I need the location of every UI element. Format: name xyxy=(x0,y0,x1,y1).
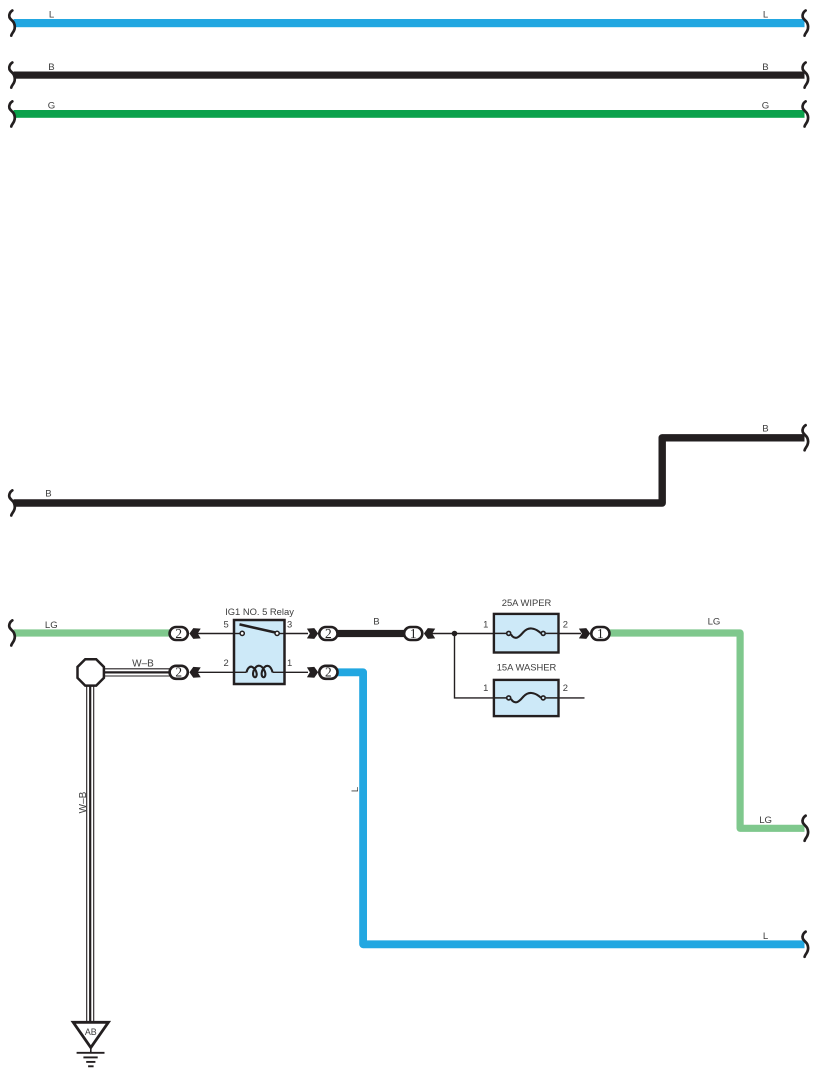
svg-text:L: L xyxy=(763,931,769,942)
svg-text:G: G xyxy=(48,101,55,112)
svg-text:L: L xyxy=(49,10,55,21)
wire B (relay to fuse, black) xyxy=(336,630,406,637)
relay switch contact xyxy=(234,633,241,635)
relay IG1 NO. 5 Relay xyxy=(223,606,294,684)
svg-text:1: 1 xyxy=(597,626,604,641)
wire junction down to 15A fuse xyxy=(455,634,496,698)
octagon splice node xyxy=(78,659,104,685)
wire connector to relay pin 2 xyxy=(196,671,234,673)
svg-text:25A WIPER: 25A WIPER xyxy=(502,597,552,608)
svg-text:1: 1 xyxy=(483,618,488,629)
wire LG (bottom-left light green) xyxy=(14,629,174,636)
wire continuation symbol right of middle B wire xyxy=(803,425,809,450)
svg-text:1: 1 xyxy=(410,626,417,641)
svg-text:B: B xyxy=(762,62,768,73)
wire connector to relay pin 5 xyxy=(196,633,234,635)
wire relay pin 1 to connector xyxy=(285,671,308,673)
fuse 25A WIPER xyxy=(483,597,568,653)
svg-text:G: G xyxy=(762,101,769,112)
wire continuation symbol left of B wire xyxy=(9,63,15,88)
svg-text:2: 2 xyxy=(325,626,332,641)
connector 2 (relay pin 1 side) xyxy=(307,665,338,680)
wire G (third, green) xyxy=(14,110,805,118)
wire continuation symbol right of G wire xyxy=(803,101,809,126)
svg-text:2: 2 xyxy=(223,657,228,668)
wire L (blue from relay, elbow down and right exit) xyxy=(336,672,805,944)
connector 1 (fuse feed) xyxy=(404,626,435,641)
svg-text:3: 3 xyxy=(287,618,292,629)
fuse element xyxy=(494,697,506,699)
svg-text:B: B xyxy=(45,489,51,500)
svg-text:B: B xyxy=(762,424,768,435)
wire connector to 25A fuse xyxy=(431,633,495,635)
ground point AB triangle xyxy=(73,1022,108,1047)
ground symbol xyxy=(77,1046,105,1066)
wire relay pin 3 to connector xyxy=(285,633,308,635)
svg-text:W–B: W–B xyxy=(78,791,89,813)
svg-text:W–B: W–B xyxy=(132,658,154,669)
svg-text:2: 2 xyxy=(563,682,568,693)
svg-text:2: 2 xyxy=(175,626,182,641)
wire B (second, black) xyxy=(14,72,805,79)
wire LG (fuse output, light green, elbow down to right exit) xyxy=(609,633,805,828)
connector 2 (relay pin 2 side) xyxy=(170,665,201,680)
svg-text:2: 2 xyxy=(563,618,568,629)
wire continuation symbol right of L wire xyxy=(803,932,809,957)
connector 1 (after 25A fuse) xyxy=(579,626,610,641)
svg-text:2: 2 xyxy=(325,665,332,680)
svg-text:L: L xyxy=(350,786,361,792)
relay coil xyxy=(234,671,247,673)
wire continuation symbol left of L wire xyxy=(9,11,15,36)
wire L (top blue) xyxy=(14,19,805,27)
wire B (middle stepped black wire) xyxy=(14,438,805,503)
svg-text:15A WASHER: 15A WASHER xyxy=(497,661,557,672)
svg-text:AB: AB xyxy=(85,1027,97,1037)
fuse 15A WASHER xyxy=(483,661,568,716)
wire continuation symbol right of LG wire xyxy=(803,816,809,841)
svg-text:LG: LG xyxy=(759,815,772,826)
svg-text:L: L xyxy=(763,10,769,21)
wire continuation symbol left of LG wire xyxy=(9,620,15,645)
svg-text:LG: LG xyxy=(45,620,58,631)
svg-text:LG: LG xyxy=(708,616,721,627)
svg-text:2: 2 xyxy=(175,665,182,680)
svg-text:5: 5 xyxy=(223,618,228,629)
wire continuation symbol left of G wire xyxy=(9,101,15,126)
wire continuation symbol right of B wire xyxy=(803,63,809,88)
wire 25A fuse to connector xyxy=(559,633,581,635)
wire W-B vertical (octagon to ground, triple line) xyxy=(87,684,94,1023)
svg-text:IG1 NO. 5 Relay: IG1 NO. 5 Relay xyxy=(225,606,294,617)
fuse element xyxy=(494,632,506,634)
wire W-B horizontal (octagon to connector, triple line) xyxy=(103,669,172,676)
svg-text:1: 1 xyxy=(483,682,488,693)
wire continuation symbol left of middle B wire xyxy=(9,490,15,515)
connector 2 (relay pin 5 side) xyxy=(170,626,201,641)
svg-text:B: B xyxy=(48,62,54,73)
junction node xyxy=(452,631,458,637)
wire continuation symbol right of L wire xyxy=(803,11,809,36)
svg-text:B: B xyxy=(373,616,379,627)
wire stub after 15A fuse xyxy=(559,697,585,699)
svg-text:1: 1 xyxy=(287,657,292,668)
connector 2 (relay pin 3 side) xyxy=(307,626,338,641)
